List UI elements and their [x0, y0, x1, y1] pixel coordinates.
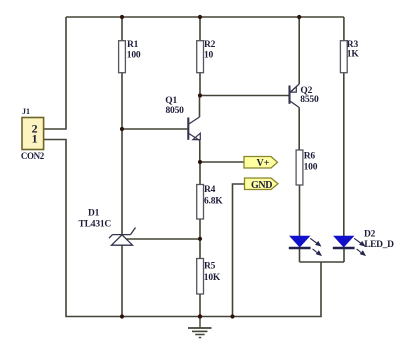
svg-text:R1: R1: [127, 40, 139, 50]
svg-text:Q1: Q1: [165, 96, 177, 106]
svg-text:8550: 8550: [300, 95, 319, 105]
svg-text:GND: GND: [251, 180, 272, 191]
svg-text:1: 1: [32, 131, 38, 145]
svg-text:D2: D2: [364, 230, 376, 240]
svg-text:100: 100: [304, 162, 318, 172]
svg-text:D1: D1: [88, 208, 100, 218]
svg-text:J1: J1: [22, 107, 30, 116]
svg-text:R5: R5: [204, 261, 216, 271]
svg-text:10: 10: [204, 50, 214, 60]
svg-text:CON2: CON2: [21, 151, 45, 161]
svg-text:LED_D: LED_D: [364, 240, 394, 250]
svg-text:TL431C: TL431C: [79, 220, 112, 230]
svg-text:R4: R4: [204, 185, 216, 195]
svg-text:100: 100: [127, 50, 141, 60]
svg-text:R3: R3: [347, 40, 359, 50]
svg-text:V+: V+: [257, 158, 270, 169]
svg-text:6.8K: 6.8K: [204, 196, 223, 206]
svg-text:R2: R2: [204, 40, 216, 50]
svg-text:1K: 1K: [347, 50, 360, 60]
svg-text:R6: R6: [304, 152, 316, 162]
svg-text:10K: 10K: [204, 273, 221, 283]
svg-text:8050: 8050: [166, 106, 185, 116]
